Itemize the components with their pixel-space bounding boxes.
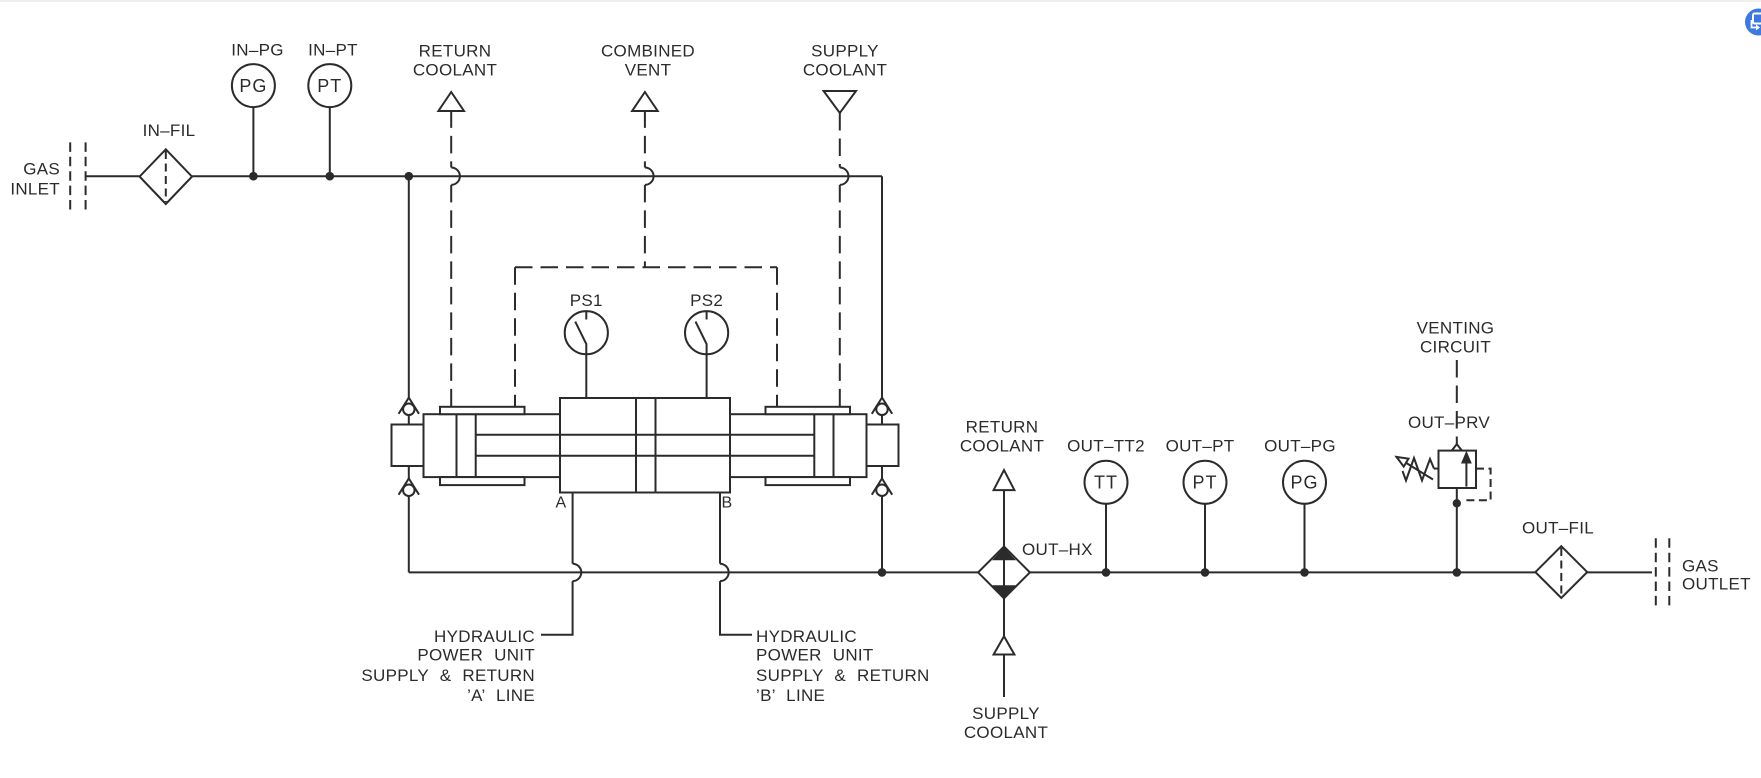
svg-text:OUT–PG: OUT–PG	[1264, 437, 1336, 456]
wire left riser	[408, 176, 410, 397]
svg-text:VENTING: VENTING	[1417, 319, 1495, 338]
svg-text:PT: PT	[1192, 473, 1217, 493]
wire main top line	[192, 175, 882, 177]
node RETURN COOLANT bottom	[960, 418, 1044, 547]
svg-text:COOLANT: COOLANT	[960, 437, 1044, 456]
heat exchanger OUT-HX	[978, 540, 1093, 598]
node junction dot IN-PT	[326, 172, 335, 181]
node junction dot left riser	[405, 172, 414, 181]
node GAS OUTLET label	[1682, 557, 1751, 594]
svg-text:COOLANT: COOLANT	[964, 723, 1048, 742]
svg-text:IN–FIL: IN–FIL	[143, 121, 196, 140]
svg-text:SUPPLY: SUPPLY	[972, 704, 1040, 723]
svg-text:PT: PT	[317, 76, 342, 96]
gauge OUT-PT	[1166, 437, 1235, 573]
label hydraulic power unit A	[361, 627, 535, 705]
node junction dot OUT-PT	[1201, 568, 1210, 577]
svg-text:’A’ LINE: ’A’ LINE	[467, 686, 535, 705]
right top manifold plate	[766, 407, 851, 414]
left top manifold plate	[440, 407, 525, 414]
wire return coolant dashed drop	[451, 110, 460, 406]
svg-text:COOLANT: COOLANT	[413, 61, 497, 80]
check valve upper left	[399, 398, 419, 425]
wire right riser	[881, 176, 883, 397]
node junction dot right downcomer	[878, 568, 887, 577]
wire combined vent dashed drop	[645, 110, 654, 267]
gas booster right rod-end cap	[867, 425, 899, 467]
svg-text:OUT–TT2: OUT–TT2	[1067, 437, 1145, 456]
svg-text:VENT: VENT	[625, 61, 672, 80]
node GAS INLET label	[10, 160, 60, 199]
wire PS dashed enclosure box	[514, 267, 516, 407]
wire hydraulic A line	[541, 493, 581, 635]
svg-text:COOLANT: COOLANT	[803, 61, 887, 80]
gauge IN-PT	[308, 41, 358, 177]
wire supply coolant dashed drop	[840, 113, 849, 407]
svg-text:CIRCUIT: CIRCUIT	[1420, 338, 1491, 357]
gas booster left rod-end cap	[392, 425, 424, 467]
svg-text:’B’ LINE: ’B’ LINE	[756, 686, 825, 705]
svg-text:SUPPLY: SUPPLY	[811, 42, 879, 61]
gas booster right cylinder body	[730, 414, 867, 477]
svg-text:A: A	[556, 495, 567, 512]
svg-text:COMBINED: COMBINED	[601, 42, 695, 61]
wire inlet to filter	[86, 175, 140, 177]
right piston	[814, 414, 833, 477]
node junction dot PRV main	[1453, 568, 1462, 577]
left piston	[457, 414, 476, 477]
svg-text:POWER UNIT: POWER UNIT	[756, 646, 874, 665]
gas booster central drive block	[560, 398, 730, 493]
svg-text:OUT–HX: OUT–HX	[1022, 540, 1093, 559]
pressure switch PS1	[565, 291, 608, 398]
central block divider band	[636, 398, 656, 493]
filter OUT-FIL	[1522, 519, 1594, 599]
node junction dot IN-PG	[249, 172, 258, 181]
wire main bottom line	[409, 571, 1652, 573]
check valve lower right	[872, 466, 892, 496]
svg-text:RETURN: RETURN	[966, 418, 1039, 437]
gas booster left cylinder body	[424, 414, 561, 477]
node RETURN COOLANT top	[413, 42, 497, 112]
node junction dot OUT-PG	[1300, 568, 1309, 577]
svg-text:GAS: GAS	[1682, 557, 1719, 576]
node VENTING CIRCUIT	[1417, 319, 1495, 357]
gas outlet boundary bars	[1656, 538, 1670, 606]
svg-text:HYDRAULIC: HYDRAULIC	[434, 627, 535, 646]
pressure switch PS2	[685, 291, 728, 398]
svg-text:POWER UNIT: POWER UNIT	[417, 646, 535, 665]
svg-text:OUT–PT: OUT–PT	[1166, 437, 1235, 456]
check valve upper right	[872, 398, 892, 425]
svg-text:B: B	[722, 495, 733, 512]
left bottom manifold plate	[440, 477, 525, 485]
svg-text:PS1: PS1	[570, 291, 603, 310]
svg-text:INLET: INLET	[10, 180, 60, 199]
svg-text:OUTLET: OUTLET	[1682, 575, 1751, 594]
svg-text:GAS: GAS	[23, 160, 60, 179]
gauge OUT-PG	[1264, 437, 1336, 573]
gas inlet boundary bars	[70, 142, 85, 209]
svg-text:RETURN: RETURN	[419, 42, 492, 61]
wire left downcomer	[408, 496, 410, 572]
gauge OUT-TT2	[1067, 437, 1145, 573]
node SUPPLY COOLANT bottom	[964, 598, 1048, 742]
svg-text:PS2: PS2	[690, 291, 723, 310]
label hydraulic power unit B	[756, 627, 930, 705]
svg-text:IN–PG: IN–PG	[231, 41, 284, 60]
svg-text:OUT–FIL: OUT–FIL	[1522, 519, 1594, 538]
UI share button top right	[1745, 9, 1761, 36]
right bottom manifold plate	[766, 477, 851, 485]
wire hydraulic B line	[720, 493, 752, 635]
node COMBINED VENT	[601, 42, 695, 112]
filter IN-FIL	[140, 121, 196, 204]
svg-text:SUPPLY & RETURN: SUPPLY & RETURN	[361, 666, 535, 685]
wire right downcomer	[881, 496, 883, 572]
svg-text:OUT–PRV: OUT–PRV	[1408, 413, 1490, 432]
svg-text:IN–PT: IN–PT	[308, 41, 358, 60]
svg-text:PG: PG	[1290, 473, 1318, 493]
piston rod	[476, 435, 815, 456]
node junction dot PRV pilot	[1453, 499, 1461, 507]
node junction dot OUT-TT2	[1102, 568, 1111, 577]
wire venting dashed line	[1456, 360, 1458, 444]
relief valve OUT-PRV	[1397, 444, 1491, 572]
svg-text:PG: PG	[239, 76, 267, 96]
svg-text:HYDRAULIC: HYDRAULIC	[756, 627, 857, 646]
svg-text:SUPPLY & RETURN: SUPPLY & RETURN	[756, 666, 930, 685]
top page border	[0, 0, 1761, 2]
gauge IN-PG	[231, 41, 284, 177]
node SUPPLY COOLANT top	[803, 42, 887, 114]
svg-text:TT: TT	[1094, 473, 1118, 493]
check valve lower left	[399, 466, 419, 496]
